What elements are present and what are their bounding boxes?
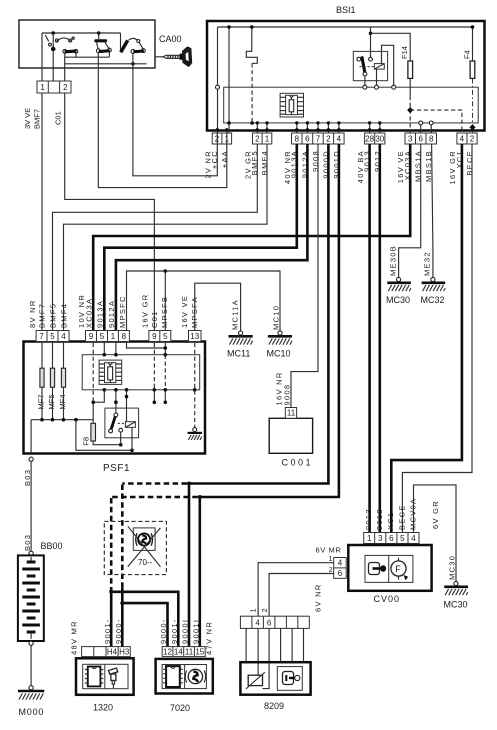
svg-text:9012: 9012 <box>375 508 384 530</box>
svg-text:9012A: 9012A <box>107 300 116 328</box>
svg-text:9: 9 <box>152 332 157 341</box>
svg-text:47V NR: 47V NR <box>205 621 214 655</box>
dashed internal MPSFA to ground <box>194 343 196 428</box>
BSI quartz module symbol <box>280 93 303 117</box>
svg-text:9013A: 9013A <box>96 300 105 328</box>
wire: S1 contacts down to lower link <box>65 53 76 57</box>
svg-text:13: 13 <box>190 332 199 341</box>
wire 9013A : BSI pin 8 to PSF1 pin 5 (thick) <box>104 144 296 331</box>
svg-text:MCV0A: MCV0A <box>408 498 417 530</box>
wire pin7 to fuse MF7 <box>41 342 43 369</box>
module bubbles for relay wires <box>363 85 367 89</box>
wire XC1 BSI pin4 to CV00 pin6 (thick) <box>391 144 462 533</box>
dashed internal MPSF <box>164 355 166 390</box>
S1 pivot solid contact <box>51 47 56 52</box>
wire pin5 to fuse MF5 <box>52 342 54 369</box>
svg-text:6V NR: 6V NR <box>314 583 323 612</box>
connector 16V VE pin 13 <box>189 331 202 342</box>
svg-text:BMF7: BMF7 <box>33 109 42 129</box>
svg-text:XC1: XC1 <box>386 512 395 531</box>
option motor box <box>133 528 155 551</box>
svg-text:PSF1: PSF1 <box>103 463 130 474</box>
coil feed from module <box>126 390 128 422</box>
svg-text:14: 14 <box>174 647 183 656</box>
relay contact output <box>120 432 122 445</box>
wire 9000 lower solid <box>121 588 124 647</box>
connector 2V NR pins 2,1 <box>212 128 231 144</box>
S3 lever (thick) <box>119 40 129 54</box>
option motor circle <box>138 533 150 545</box>
key collar <box>180 54 183 60</box>
junction dot 9000 to 7020 pin 11 <box>187 482 191 486</box>
svg-text:MC30: MC30 <box>448 555 457 580</box>
svg-text:F8: F8 <box>81 437 90 446</box>
svg-text:BECE: BECE <box>465 150 474 176</box>
svg-text:2: 2 <box>326 135 331 144</box>
svg-text:4: 4 <box>61 332 66 341</box>
S3 moving bridge (thick) <box>133 50 144 54</box>
ground MC11 <box>227 331 253 359</box>
fuse MF4 <box>61 368 65 387</box>
svg-text:6V GR: 6V GR <box>431 500 440 529</box>
svg-text:8V NR: 8V NR <box>28 299 37 328</box>
wire: ignition feed with step symbol <box>246 27 257 63</box>
svg-text:8: 8 <box>295 135 300 144</box>
battery internal link <box>30 557 32 639</box>
svg-text:MC11: MC11 <box>227 349 250 359</box>
PSF1 coded module symbol <box>99 360 122 384</box>
svg-text:48V MR: 48V MR <box>70 620 79 655</box>
switch contact S3 (right): feed from bus <box>120 33 122 51</box>
ground MC10 <box>267 331 293 359</box>
svg-text:MC11A: MC11A <box>230 299 239 330</box>
wire: relay feed from bus <box>370 27 372 57</box>
svg-text:16V VE: 16V VE <box>180 295 189 328</box>
connector circle BB00 top <box>29 551 33 555</box>
svg-text:CV00: CV00 <box>374 594 401 604</box>
S2 top bridge (thick) <box>94 39 107 42</box>
wire 9012A : BSI pin 6 to PSF1 pin 1 (thick) <box>116 144 308 331</box>
svg-text:2: 2 <box>255 135 260 144</box>
connector 10V NR pins 9,5,1,8 <box>86 331 130 342</box>
S1 small end contact <box>72 37 74 39</box>
wire 9001I branch to 7020 pin 15 <box>199 497 202 647</box>
8209 box <box>240 662 310 695</box>
battery plates <box>22 561 40 634</box>
svg-text:11: 11 <box>185 647 194 656</box>
C001 pin 11 <box>285 408 296 419</box>
8209 key icon <box>277 667 302 691</box>
S2 lower contact circles <box>96 49 100 53</box>
S3 lower contact circles <box>131 50 135 54</box>
connector 40V BA pins 28,30 <box>365 121 385 144</box>
ground MC30 (lower) <box>444 581 469 609</box>
S3 link arc to top contact <box>129 38 137 40</box>
S2 legs <box>97 42 109 49</box>
1320 injector icon <box>109 668 118 688</box>
internal MPSFC/MPSFB join <box>127 342 166 355</box>
svg-text:1: 1 <box>329 556 333 563</box>
wire: S2 right contact to link rail <box>108 52 110 57</box>
svg-text:BB00: BB00 <box>41 541 63 551</box>
relay RL-BSI box <box>353 51 387 80</box>
wire 2 into 8209 <box>263 628 270 688</box>
connector 8V NR pins 7,5,4 <box>36 331 69 342</box>
wire: branch to fuse F14 <box>371 33 411 61</box>
svg-text:ME32: ME32 <box>423 251 432 276</box>
svg-text:+AA: +AA <box>220 150 229 168</box>
svg-text:XC03A: XC03A <box>85 298 94 328</box>
svg-text:BMF5: BMF5 <box>49 303 58 328</box>
wire: bus down to BMF7 pin 1 <box>41 33 43 81</box>
svg-text:9000-: 9000- <box>114 618 123 644</box>
wire BMF4 : BSI to PSF1 pin 4 <box>64 144 268 331</box>
ground MC30 (upper) <box>386 277 411 305</box>
wire 9013 BSI pin28 to CV00 pin1 (thick) <box>368 144 371 533</box>
key blade <box>163 55 180 58</box>
wire 9001 lower solid <box>110 588 113 647</box>
connector bubble on +CC wire <box>216 85 220 89</box>
svg-text:5: 5 <box>163 332 168 341</box>
wire: C01 pin2 up to link rails <box>64 57 66 81</box>
relay coil with diagonal <box>125 422 135 428</box>
svg-text:6V MR: 6V MR <box>316 546 342 555</box>
svg-text:M000: M000 <box>19 707 45 717</box>
svg-text:3V VE: 3V VE <box>23 108 32 129</box>
svg-text:3: 3 <box>408 135 413 144</box>
svg-text:8209: 8209 <box>264 701 284 711</box>
wire bus to B03 exit <box>30 420 32 454</box>
relay contact feed from module <box>115 390 117 413</box>
wire: pivot middle cell down <box>52 51 54 81</box>
internal stubs 9013A 9012A <box>104 342 116 355</box>
wire: relay contact output down <box>364 76 366 86</box>
svg-text:MPSFA: MPSFA <box>190 296 199 328</box>
junction dot on bus (middle switch) <box>97 31 101 35</box>
svg-text:4: 4 <box>338 559 343 568</box>
option crossed-out X <box>128 526 161 566</box>
svg-text:5: 5 <box>400 534 405 543</box>
fuse MF7 <box>40 368 44 387</box>
dashed internal XC03A <box>92 343 94 402</box>
7020 box <box>156 659 213 694</box>
svg-text:MF7: MF7 <box>37 395 46 410</box>
svg-text:CA00: CA00 <box>159 34 182 44</box>
svg-text:MC30: MC30 <box>444 600 468 610</box>
svg-text:7: 7 <box>39 332 44 341</box>
svg-text:6: 6 <box>305 135 310 144</box>
svg-text:3: 3 <box>378 534 383 543</box>
junction dot 9001 to 7020 pin 15 <box>198 495 202 499</box>
wire: F4 feed from bus <box>472 27 474 61</box>
svg-text:6: 6 <box>389 534 394 543</box>
CV00 left connector 6V MR pins 4,6 <box>334 558 347 579</box>
svg-text:1: 1 <box>367 534 372 543</box>
svg-text:9000I: 9000I <box>181 619 190 644</box>
svg-text:8: 8 <box>122 332 127 341</box>
dashed internal C01 <box>153 343 155 390</box>
svg-text:9001-: 9001- <box>103 618 112 644</box>
connector circle BB00 bottom <box>29 641 33 645</box>
1320 chip icon <box>85 667 103 687</box>
wire MF5 to bus <box>52 387 54 420</box>
svg-text:1: 1 <box>111 332 116 341</box>
dashed: F14 to pins <box>409 96 411 133</box>
ignition switch box CA00 <box>19 20 155 68</box>
switch contact S1 (left): pivot wire <box>52 33 54 48</box>
svg-text:MPSFB: MPSFB <box>160 296 169 328</box>
CV00 key icon <box>369 563 387 575</box>
connector B03 at PSF1 <box>29 457 33 461</box>
wire MPSFC/MPSFB to ground MC10 <box>127 271 281 331</box>
relay moving contact circle <box>363 72 367 76</box>
svg-text:C01: C01 <box>150 310 159 328</box>
svg-text:12: 12 <box>163 647 172 656</box>
key bow <box>183 47 192 66</box>
wire: coil top loop around box <box>382 45 394 85</box>
wire 9001 net: BSI pin4 down and across (thick) <box>200 144 339 497</box>
wire F8 riser <box>92 402 94 423</box>
svg-text:6: 6 <box>418 135 423 144</box>
wire BB00 to M000 <box>30 645 32 685</box>
svg-text:4: 4 <box>337 135 342 144</box>
svg-text:1: 1 <box>40 83 45 92</box>
dashed option outline <box>104 521 166 574</box>
svg-text:5: 5 <box>100 332 105 341</box>
svg-text:BMF4: BMF4 <box>60 303 69 328</box>
option motor side arcs <box>136 533 153 545</box>
relay input contact circle <box>369 57 373 61</box>
1320 inner box <box>83 664 128 688</box>
svg-text:BSI1: BSI1 <box>336 5 356 15</box>
CV00 box <box>348 545 431 591</box>
8209 pin connector <box>240 616 309 628</box>
relay coil box with diagonal <box>374 64 384 70</box>
svg-text:B03: B03 <box>23 534 32 551</box>
junction dot ignition feed at module <box>250 121 254 125</box>
wire 9000- to 7020 pin 12 <box>122 603 167 647</box>
connector 16V VE pins 3,6,8 <box>405 121 437 144</box>
relay lever (thick) <box>110 416 117 430</box>
svg-text:H4: H4 <box>107 647 118 656</box>
dashed continuation of ignition feed <box>251 63 253 123</box>
svg-text:MC10: MC10 <box>267 349 291 359</box>
wire 2 : CV00 pin6 to 8209 pin6 <box>269 574 334 617</box>
wire: +AA exit from S2 left contact <box>97 53 99 68</box>
svg-text:MPSFC: MPSFC <box>118 295 127 328</box>
1320 pin connector H4,H3 <box>82 647 131 657</box>
svg-text:9008: 9008 <box>282 384 291 406</box>
wire MF7 to bus <box>41 387 43 420</box>
svg-text:F14: F14 <box>400 46 409 59</box>
svg-text:4: 4 <box>255 619 260 628</box>
dashed 9000 option section <box>122 484 187 589</box>
connector 16V GR pins 4,2 <box>457 133 477 144</box>
relay lever (thick) <box>360 56 366 73</box>
svg-text:8: 8 <box>429 135 434 144</box>
wire: BSI internal top bus <box>218 26 473 28</box>
svg-text:15: 15 <box>195 647 204 656</box>
svg-text:MC10: MC10 <box>271 305 280 330</box>
PSF1 inner module box <box>82 355 200 390</box>
svg-text:ME30B: ME30B <box>388 245 397 276</box>
svg-text:9001-: 9001- <box>170 618 179 644</box>
wire 9008 : BSI pin 7 to C001 pin 11 <box>291 144 318 408</box>
svg-text:2: 2 <box>63 83 68 92</box>
C001 box <box>269 418 312 453</box>
S1 lower contact circles <box>63 49 67 53</box>
CV00 pin connector 1,3,6,5,4 <box>364 533 419 544</box>
svg-text:2: 2 <box>260 608 269 612</box>
relay lower contact circles <box>109 429 113 433</box>
wire B03 down <box>30 461 32 551</box>
connector 40V NR pins 8,6,7,2,4 <box>292 121 345 144</box>
svg-text:H3: H3 <box>119 647 130 656</box>
svg-text:16V GR: 16V GR <box>141 294 150 328</box>
svg-text:9000-: 9000- <box>159 618 168 644</box>
svg-text:2: 2 <box>470 135 475 144</box>
junction dot +AA top <box>227 25 231 29</box>
svg-text:BMF7: BMF7 <box>38 303 47 328</box>
svg-text:1320: 1320 <box>93 703 113 713</box>
svg-text:9001I: 9001I <box>192 619 201 644</box>
8209 coil with diagonal <box>248 675 262 685</box>
svg-text:MF5: MF5 <box>47 395 56 410</box>
7020 motor icon <box>185 669 205 683</box>
svg-text:1: 1 <box>249 608 258 612</box>
fuse F4 body <box>470 61 475 78</box>
wire +CC : CA00 S3 to BSI pin 2 <box>133 68 217 176</box>
BSI1 box <box>207 21 485 131</box>
battery BB00 box <box>18 555 44 641</box>
CV00 interlock icon <box>391 558 408 581</box>
BSI inner module box <box>224 87 479 123</box>
wire MBS1B : BSI pin 8 to ground MC32 <box>432 144 433 277</box>
wire BMF7 : CA00 pin1 to PSF1 pin 7 <box>41 93 43 331</box>
svg-text:BMF4: BMF4 <box>260 150 269 175</box>
connector 16V GR pins 9,5 <box>149 331 171 342</box>
wire: second link rail <box>65 63 147 65</box>
junction dot MPSFB branch <box>164 269 168 273</box>
connector housing pins 1/2 <box>37 81 71 93</box>
wire C01 : CA00 pin2 to PSF1 16VGR pin 9 <box>65 93 155 331</box>
7020 inner box <box>162 665 206 689</box>
svg-text:C01: C01 <box>54 111 63 125</box>
svg-text:4: 4 <box>411 534 416 543</box>
wire: CA00 internal top bus <box>42 32 121 34</box>
ground MC32 <box>421 277 446 305</box>
wire bus branch to coil line <box>76 420 132 451</box>
wire: +AA internal vertical <box>228 27 230 133</box>
internal link XC03A to relay <box>93 390 104 402</box>
svg-text:7020: 7020 <box>170 703 190 713</box>
fuse F8 <box>91 423 96 441</box>
wire F8 to relay contact <box>93 441 121 445</box>
wire XC03A : BSI pin 3 to PSF1 pin 9 (thick) <box>93 144 410 331</box>
junction dot step top <box>250 25 254 29</box>
fuse F14 body <box>408 61 413 78</box>
svg-text:7: 7 <box>316 135 321 144</box>
wire pin4 to fuse MF4 <box>63 342 65 369</box>
wire: F14 output <box>409 78 411 96</box>
relay fixed contact circle <box>357 57 361 61</box>
S1 side contact circle <box>49 43 52 46</box>
svg-text:F: F <box>395 564 401 574</box>
junction diamond F4 net <box>469 124 475 130</box>
wire 1 into 8209 <box>257 628 259 675</box>
svg-text:MC32: MC32 <box>421 295 445 305</box>
svg-text:6: 6 <box>267 619 272 628</box>
wire MF4 to bus <box>63 387 65 420</box>
connector 2V GR pins 2,1 <box>253 121 272 144</box>
wire: +CC internal vertical <box>217 27 219 133</box>
S2 moving bridge (thick) <box>99 49 110 53</box>
S1 arc track circles <box>55 39 58 42</box>
junction dot on bus (left switch) <box>51 31 55 35</box>
wire MCV0A CV00 pin4 to ground MC30 <box>414 485 457 582</box>
wire 9001- to 7020 pin 14 <box>111 592 178 647</box>
S3 link down <box>139 42 143 48</box>
wire MPSFA : PSF1 pin 13 to ground MC11 <box>195 283 241 331</box>
wire 9012 BSI pin30 to CV00 pin3 (thick) <box>378 144 381 533</box>
wire MBS1A : BSI pin 6 to ground MC30 <box>399 144 421 277</box>
svg-text:70--: 70-- <box>138 558 153 567</box>
junction dot 9000- split <box>120 601 124 605</box>
wire BECE BSI pin2 to CV00 pin5 <box>402 144 472 533</box>
dashed 9001 option section <box>111 497 198 588</box>
wire 9000I branch to 7020 pin 11 <box>188 484 191 647</box>
relay dashed link <box>360 66 374 68</box>
switch contact S2 (middle): feed from bus <box>98 33 100 39</box>
actuator tick mark <box>45 35 48 41</box>
relay RL-PSF box <box>105 408 139 438</box>
S1 arc track <box>56 38 72 42</box>
wire BMF5 : BSI to PSF1 pin 5 <box>53 144 258 331</box>
svg-text:1: 1 <box>265 135 270 144</box>
svg-text:28: 28 <box>365 135 374 144</box>
svg-text:9: 9 <box>89 332 94 341</box>
dash-dot: F4 to BECE pin <box>472 78 474 133</box>
CV00 inner icon box <box>365 555 413 582</box>
junction dot 9001- split <box>109 590 113 594</box>
svg-text:F4: F4 <box>463 50 472 59</box>
svg-text:11: 11 <box>287 409 296 418</box>
wire +AA : CA00 S2 to BSI pin 1 <box>98 68 227 188</box>
8209 connector body lines <box>246 628 303 662</box>
junction dot F4 top <box>471 25 475 29</box>
wire 9000 net: BSI pin2 down and across (thick) <box>189 144 328 484</box>
relay dashed link <box>118 422 125 424</box>
svg-text:30: 30 <box>375 135 384 144</box>
svg-text:MC30: MC30 <box>386 295 410 305</box>
S3 top contact circle <box>137 40 140 43</box>
1320 box <box>76 658 134 695</box>
svg-text:5: 5 <box>50 332 55 341</box>
relay top contact circle <box>114 413 118 417</box>
svg-text:MF4: MF4 <box>58 395 67 410</box>
svg-text:BECE: BECE <box>397 504 406 530</box>
svg-text:9013: 9013 <box>364 508 373 530</box>
junction diamond F14 net <box>407 107 413 113</box>
svg-text:B03: B03 <box>23 469 32 486</box>
junction dot +CC on link rail <box>131 62 135 66</box>
svg-text:4: 4 <box>460 135 465 144</box>
junction dot +AA inner box <box>227 121 231 125</box>
PSF1 box <box>24 342 206 454</box>
wire: +CC exit from S3 left contact <box>132 53 134 68</box>
7020 chip icon <box>163 666 183 687</box>
wire to key <box>155 56 164 58</box>
